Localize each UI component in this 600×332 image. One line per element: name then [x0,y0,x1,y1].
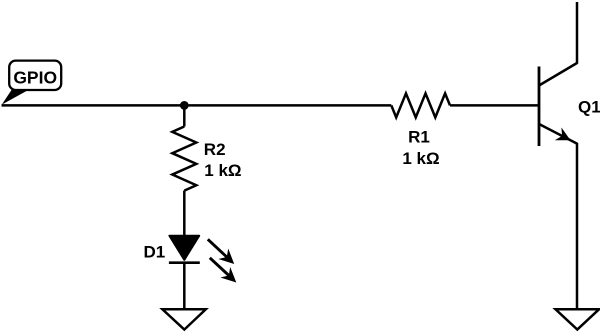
wire from R1 to Q1 base [450,104,539,107]
svg-text:R1: R1 [408,127,430,146]
wire main horizontal net from GPIO to R1 [2,104,392,107]
light emission arrows [208,239,228,257]
resistor R1 [391,93,450,167]
ground (right) [556,309,600,329]
wire R2 to D1 [183,191,186,237]
node junction [180,101,189,110]
wire D1 to ground [183,263,186,310]
svg-text:1 kΩ: 1 kΩ [204,161,241,180]
svg-text:1 kΩ: 1 kΩ [402,149,439,168]
svg-text:Q1: Q1 [578,97,600,116]
svg-text:GPIO: GPIO [13,68,57,88]
LED D1 [144,236,237,283]
resistor R2 [172,127,241,191]
GPIO flag [2,61,61,105]
wire Q1 collector up [576,2,579,64]
wire Q1 emitter down [576,143,579,309]
ground (left) [162,309,205,329]
svg-text:R2: R2 [204,140,226,159]
wire junction to R2 [183,105,186,126]
svg-text:D1: D1 [144,243,166,262]
transistor Q1 [539,63,600,146]
